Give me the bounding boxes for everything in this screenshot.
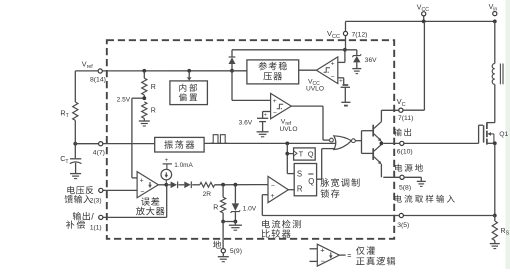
svg-text:+: + (339, 79, 343, 85)
svg-text:压器: 压器 (263, 68, 283, 82)
svg-text:1.0mA: 1.0mA (174, 162, 193, 169)
svg-text:5(8): 5(8) (399, 184, 411, 191)
svg-text:VC: VC (397, 97, 406, 108)
svg-text:−: − (331, 74, 335, 81)
svg-text:VCC: VCC (327, 29, 340, 40)
svg-text:补偿: 补偿 (66, 218, 87, 231)
svg-text:Q: Q (308, 177, 314, 186)
svg-text:Vin: Vin (489, 4, 498, 13)
svg-text:S: S (297, 170, 302, 179)
svg-text:2(3): 2(3) (90, 197, 102, 204)
svg-text:3(5): 3(5) (397, 222, 409, 229)
svg-text:+: + (271, 193, 275, 200)
svg-text:正真逻辑: 正真逻辑 (356, 254, 397, 268)
svg-text:4(7): 4(7) (93, 149, 105, 156)
svg-text:UVLO: UVLO (280, 126, 298, 133)
svg-text:Vref: Vref (82, 60, 93, 71)
svg-text:+: + (165, 157, 169, 164)
svg-text:−: − (271, 183, 275, 190)
svg-text:6(10): 6(10) (397, 149, 413, 156)
svg-text:2R: 2R (203, 191, 212, 198)
svg-text:Q1: Q1 (499, 131, 508, 138)
svg-text:=: = (347, 253, 351, 260)
svg-text:Q: Q (308, 150, 314, 159)
svg-text:1(1): 1(1) (90, 224, 102, 231)
svg-text:8(14): 8(14) (90, 77, 106, 84)
svg-text:电源地: 电源地 (394, 162, 425, 174)
svg-text:7(12): 7(12) (352, 32, 368, 39)
svg-text:−: − (321, 257, 325, 266)
svg-text:偏置: 偏置 (179, 92, 200, 104)
svg-text:R: R (151, 107, 156, 114)
svg-text:7(11): 7(11) (398, 115, 413, 122)
svg-text:锁存: 锁存 (320, 186, 341, 200)
svg-text:1.0V: 1.0V (243, 205, 257, 212)
svg-text:放大器: 放大器 (136, 204, 166, 218)
svg-text:36V: 36V (365, 57, 377, 64)
svg-text:RT: RT (60, 108, 69, 119)
svg-text:R: R (297, 185, 303, 194)
svg-text:5(9): 5(9) (230, 248, 242, 255)
svg-text:+: + (331, 61, 335, 68)
svg-text:R: R (151, 84, 156, 91)
svg-text:馈输入: 馈输入 (64, 192, 92, 205)
svg-text:+: + (320, 245, 324, 254)
svg-text:+: + (273, 98, 277, 105)
svg-text:T: T (299, 149, 304, 158)
svg-text:2.5V: 2.5V (117, 97, 131, 104)
svg-text:CT: CT (60, 154, 69, 165)
svg-text:UVLO: UVLO (306, 86, 324, 93)
svg-text:+: + (140, 177, 144, 184)
svg-text:−: − (273, 109, 277, 116)
svg-text:3.6V: 3.6V (239, 119, 253, 126)
svg-text:R: R (213, 205, 218, 212)
svg-text:VCC: VCC (417, 4, 429, 13)
svg-text:振荡器: 振荡器 (164, 137, 196, 151)
svg-text:电流取样输入: 电流取样输入 (394, 193, 458, 205)
svg-text:输出: 输出 (393, 126, 413, 138)
svg-text:比较器: 比较器 (261, 226, 292, 240)
svg-text:地: 地 (213, 238, 222, 251)
